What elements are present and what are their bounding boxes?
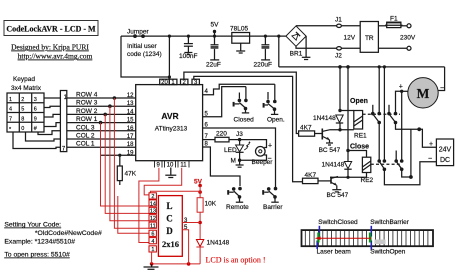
svg-text:6: 6: [151, 232, 154, 238]
svg-text:Beeper: Beeper: [252, 159, 274, 166]
svg-text:4: 4: [9, 107, 12, 113]
svg-text:Closed: Closed: [234, 117, 255, 124]
svg-text:78L05: 78L05: [230, 26, 248, 33]
svg-text:5V: 5V: [211, 22, 220, 29]
svg-text:TR: TR: [365, 35, 374, 42]
svg-text:M: M: [417, 86, 430, 101]
svg-text:D: D: [166, 226, 173, 236]
svg-text:J3: J3: [236, 131, 243, 138]
svg-text:ATtiny2313: ATtiny2313: [155, 126, 188, 133]
svg-text:J1: J1: [335, 17, 342, 24]
svg-text:To open press: 5510#: To open press: 5510#: [4, 252, 70, 259]
svg-text:−: −: [440, 85, 444, 92]
svg-text:SwitchClosed: SwitchClosed: [318, 219, 358, 226]
svg-text:1N4148: 1N4148: [207, 239, 230, 246]
svg-text:12V: 12V: [344, 35, 356, 42]
svg-text:3x4 Matrix: 3x4 Matrix: [11, 85, 42, 92]
svg-text:+: +: [399, 84, 403, 91]
svg-text:Remote: Remote: [226, 204, 249, 211]
svg-text:+: +: [429, 141, 433, 148]
svg-text:14: 14: [150, 201, 156, 207]
svg-text:17: 17: [127, 134, 134, 140]
svg-text:4: 4: [151, 239, 154, 245]
svg-text:6: 6: [34, 107, 37, 113]
svg-text:8: 8: [21, 116, 24, 122]
svg-text:11: 11: [150, 224, 156, 230]
svg-text:Keypad: Keypad: [13, 76, 35, 83]
svg-text:−: −: [428, 156, 432, 163]
svg-text:20: 20: [161, 80, 168, 86]
svg-text:11: 11: [180, 163, 187, 169]
svg-text:1: 1: [9, 97, 12, 103]
svg-text:RE2: RE2: [361, 177, 374, 184]
svg-text:18: 18: [127, 142, 134, 148]
svg-text:Example: *1234#5510#: Example: *1234#5510#: [4, 239, 75, 246]
svg-text:LCD is an option !: LCD is an option !: [206, 256, 266, 265]
svg-text:DC: DC: [440, 157, 450, 164]
svg-text:Open.: Open.: [267, 117, 285, 124]
svg-text:16: 16: [127, 126, 134, 132]
svg-text:code (1234): code (1234): [127, 51, 162, 58]
svg-text:SwitchOpen: SwitchOpen: [370, 249, 405, 256]
svg-text:AVR: AVR: [161, 111, 178, 121]
svg-text:CodeLockAVR - LCD - M: CodeLockAVR - LCD - M: [6, 25, 96, 34]
svg-text:Initial user: Initial user: [127, 43, 157, 50]
svg-text:100nF: 100nF: [179, 53, 197, 60]
svg-text:14: 14: [127, 109, 134, 115]
svg-text:Close: Close: [350, 144, 369, 151]
svg-text:BR1: BR1: [290, 51, 303, 58]
svg-text:15: 15: [127, 118, 134, 124]
svg-text:2: 2: [151, 194, 154, 200]
svg-text:220: 220: [216, 131, 227, 138]
svg-text:24V: 24V: [439, 147, 452, 154]
svg-text:5: 5: [21, 107, 24, 113]
svg-text:SwitchBarrier: SwitchBarrier: [370, 219, 409, 226]
svg-text:230V: 230V: [400, 35, 416, 42]
svg-text:2x16: 2x16: [162, 239, 179, 249]
svg-text:C: C: [166, 214, 173, 224]
svg-text:Setting Your Code:: Setting Your Code:: [4, 222, 61, 229]
svg-text:220uF: 220uF: [254, 62, 272, 69]
svg-text:*OldCode#NewCode#: *OldCode#NewCode#: [35, 230, 102, 237]
svg-text:J2: J2: [335, 53, 342, 60]
svg-text:10K: 10K: [205, 201, 217, 208]
svg-text:Jumper: Jumper: [127, 29, 150, 36]
svg-text:13: 13: [127, 101, 134, 107]
svg-text:22uF: 22uF: [206, 62, 221, 69]
svg-text:13: 13: [150, 209, 156, 215]
svg-text:BC 547: BC 547: [319, 147, 341, 154]
svg-text:L: L: [166, 201, 172, 211]
svg-text:Barrier: Barrier: [263, 204, 283, 211]
svg-text:47K: 47K: [125, 171, 137, 178]
svg-text:F1: F1: [390, 16, 398, 23]
svg-text:+: +: [268, 143, 272, 150]
svg-text:http://www.avr.4mg.com: http://www.avr.4mg.com: [18, 52, 93, 61]
svg-text:BC 547: BC 547: [327, 192, 349, 199]
svg-text:Laser beam: Laser beam: [317, 249, 351, 256]
svg-text:0: 0: [21, 126, 24, 132]
svg-text:RE1: RE1: [354, 132, 367, 139]
svg-text:12: 12: [150, 216, 156, 222]
svg-text:12: 12: [127, 93, 134, 99]
svg-text:Designed by: Kripa PURI: Designed by: Kripa PURI: [11, 43, 89, 52]
svg-text:Open: Open: [350, 98, 368, 105]
svg-text:7: 7: [9, 116, 12, 122]
svg-text:1N4148: 1N4148: [313, 115, 336, 122]
svg-text:9: 9: [34, 116, 37, 122]
svg-text:2: 2: [21, 97, 24, 103]
svg-text:LED: LED: [224, 147, 237, 154]
svg-text:1N4148: 1N4148: [322, 162, 345, 169]
svg-text:M: M: [231, 158, 236, 165]
svg-text:3: 3: [34, 97, 37, 103]
